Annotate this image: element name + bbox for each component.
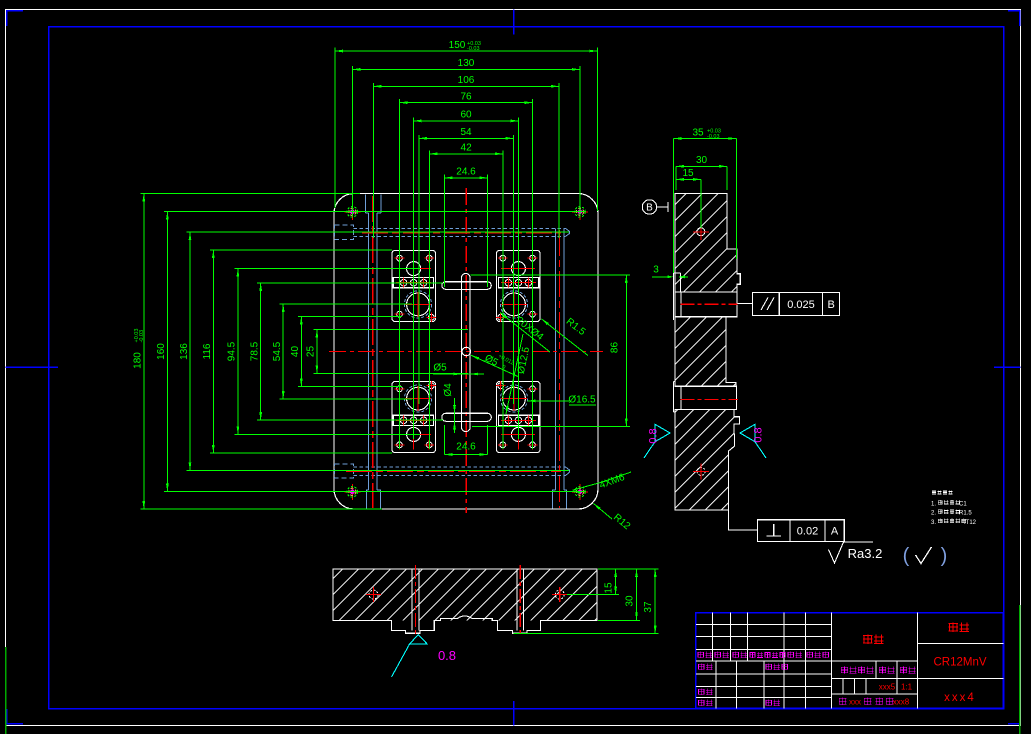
svg-text:25: 25 (306, 346, 317, 358)
dimension 37 bottom section (514, 569, 659, 634)
svg-text:60: 60 (460, 110, 472, 121)
svg-text:0.8: 0.8 (438, 648, 456, 663)
svg-text:C1: C1 (959, 501, 967, 507)
main plate outline with R12 corner fillets (334, 194, 598, 510)
section view right: bottom block hatched (675, 409, 740, 510)
svg-text:-0.03: -0.03 (707, 134, 720, 140)
svg-text:2.: 2. (931, 511, 936, 517)
dimension 24.6 horizontal top (445, 167, 488, 287)
green screenshot edge segments (5, 647, 7, 734)
svg-text:94.5: 94.5 (227, 341, 238, 361)
svg-text:-0.03: -0.03 (139, 330, 145, 343)
dimension dia4 slot (443, 383, 456, 433)
runner centerline left vertical (372, 196, 374, 508)
surface finish 0.8 left of section (644, 424, 670, 458)
title block bottom row gongxzhang (839, 698, 910, 707)
title block label jieduanbiaoji zhongliang bili (841, 667, 874, 674)
runner channel horizontal bottom (354, 466, 566, 468)
runner outlet tab bottom right (553, 490, 567, 508)
svg-text:0.02: 0.02 (797, 526, 818, 538)
dimension 86 right (471, 275, 630, 427)
svg-text:40: 40 (290, 346, 301, 358)
section view right: screw band upper (675, 292, 737, 317)
leader R1.5 (542, 316, 589, 355)
dimension 3 section (652, 265, 688, 279)
runner centerline bottom horizontal (346, 471, 561, 473)
svg-text:30: 30 (696, 155, 708, 166)
datum B symbol (642, 200, 668, 214)
corner hole bottom-left 4xM6 (344, 484, 360, 500)
svg-text:78.5: 78.5 (250, 341, 261, 361)
svg-text:24.6: 24.6 (456, 167, 476, 178)
part name xingxin (863, 635, 884, 645)
runner outlet tab bottom left (367, 490, 381, 508)
technical notes text (931, 491, 977, 526)
dimension 30 section (676, 155, 727, 190)
leader 20X dia4 (500, 313, 550, 353)
svg-text:): ) (941, 545, 948, 567)
surface finish 0.8 right of section (740, 424, 766, 458)
svg-text:A: A (831, 526, 839, 538)
central vertical slot (461, 274, 470, 432)
svg-text:30: 30 (625, 595, 636, 607)
svg-text:R1.5: R1.5 (959, 511, 972, 517)
svg-text:Ø4: Ø4 (443, 383, 454, 397)
dimension 78.5 vertical left (250, 283, 444, 420)
insert block top-right (497, 250, 541, 321)
title block labels row: biaoji chushu fenqu etc (698, 652, 830, 659)
dimension 15 bottom section (567, 569, 619, 595)
dimension 136 vertical left (179, 232, 569, 470)
insert block top-left (392, 250, 436, 321)
corner hole bottom-right 4xM6 (572, 484, 588, 500)
svg-text:0.8: 0.8 (753, 427, 765, 442)
section view right: screw band lower (675, 386, 737, 409)
dimension 54.5 vertical left (272, 304, 412, 399)
svg-text:IT12: IT12 (964, 520, 977, 526)
svg-text:xxx4: xxx4 (944, 692, 976, 704)
svg-text:54: 54 (460, 127, 472, 138)
svg-text:B: B (828, 299, 835, 311)
svg-text:42: 42 (461, 143, 473, 154)
runner centerline top horizontal (362, 232, 561, 234)
svg-text:0.8: 0.8 (648, 428, 660, 443)
svg-text:180: 180 (133, 352, 144, 369)
title block grid (696, 613, 1004, 709)
dimension 40 vertical left (290, 317, 402, 387)
svg-text:xxx5: xxx5 (879, 683, 896, 692)
svg-text:54.5: 54.5 (272, 341, 283, 361)
leader R12 (594, 504, 633, 533)
title block label sheji / biaozhunhua (698, 664, 713, 671)
section hole upper (697, 228, 705, 236)
dimension 15 section (676, 168, 701, 228)
svg-text:160: 160 (156, 343, 167, 360)
svg-text:1:1: 1:1 (901, 683, 913, 692)
svg-text:xxx8: xxx8 (893, 698, 910, 707)
section view right: middle block hatched (675, 317, 736, 387)
centerline vertical main (465, 188, 467, 513)
svg-text:86: 86 (610, 342, 621, 354)
svg-text:116: 116 (202, 343, 213, 359)
section view right: top block hatched (675, 194, 740, 292)
svg-text:-0.03: -0.03 (467, 46, 480, 52)
svg-text:24.6: 24.6 (456, 442, 476, 453)
runner tab left lower (335, 464, 354, 478)
svg-text:CR12MnV: CR12MnV (933, 657, 986, 669)
leader dia12.5 (506, 334, 532, 414)
dimension 94.5 vertical left (227, 269, 420, 435)
insert block bottom-left (392, 382, 436, 453)
svg-text:136: 136 (179, 343, 190, 360)
svg-text:106: 106 (458, 75, 475, 86)
svg-text:130: 130 (458, 58, 475, 69)
surface finish 0.8 bottom section (392, 635, 457, 677)
bottom section slot seams (411, 569, 413, 631)
svg-text:0.025: 0.025 (787, 299, 815, 311)
bottom section red centerlines (414, 565, 416, 637)
dimension 54 horizontal top (419, 127, 514, 404)
dimension 30 bottom section (598, 569, 640, 620)
svg-text:15: 15 (682, 168, 694, 179)
corner hole top-right 4xM6 (572, 204, 588, 220)
dimension 24.6 bottom (444, 425, 487, 456)
dimension 150 horizontal top (335, 40, 598, 211)
svg-text:Ra3.2: Ra3.2 (848, 546, 883, 561)
horizontal slot bottom (442, 413, 492, 421)
svg-text:76: 76 (460, 91, 472, 102)
bracketed check symbol (903, 545, 948, 567)
dimension 130 horizontal top (352, 58, 580, 216)
surface finish Ra3.2 general (829, 542, 883, 563)
svg-text:Ø5: Ø5 (433, 363, 447, 374)
svg-text:37: 37 (643, 601, 654, 613)
dimension 60 horizontal top (414, 110, 519, 439)
svg-text:Ø16.5: Ø16.5 (568, 395, 596, 406)
parallelism tolerance frame 0.025 B (738, 293, 840, 316)
title block outer border (696, 613, 1004, 709)
perpendicularity tolerance frame 0.02 A (729, 510, 845, 542)
dimension 180 vertical left (133, 194, 382, 510)
runner tab left upper (335, 225, 354, 240)
runner centerline right vertical (559, 230, 561, 508)
leader dia5 +0.012 center hole (471, 353, 518, 377)
svg-text:3: 3 (653, 265, 659, 276)
runner channel vertical right (555, 228, 557, 490)
svg-text:15: 15 (604, 582, 615, 594)
dimension 116 vertical left (202, 250, 392, 453)
centerline horizontal main (329, 351, 603, 353)
svg-text:(: ( (903, 545, 910, 567)
insert block bottom-right (497, 382, 541, 453)
dimension dia5 slot (433, 363, 484, 376)
runner channel horizontal top (354, 227, 566, 229)
section hole lower (697, 467, 705, 475)
dimension 35 +-0.03 (674, 127, 737, 273)
svg-text:xxx: xxx (849, 698, 861, 707)
svg-text:1.: 1. (931, 501, 936, 507)
title block label gongyi / pizhun (698, 700, 713, 707)
bottom section hole marks (369, 590, 378, 599)
dimension 25 vertical left (306, 330, 468, 374)
svg-text:35: 35 (692, 127, 704, 138)
dimension 76 horizontal top (400, 91, 533, 449)
runner inlet tab top (365, 195, 381, 214)
dimension 106 horizontal top (373, 75, 559, 238)
runner channel vertical left (367, 213, 369, 490)
leader dia16.5 (528, 395, 597, 406)
school name xueyuan (949, 623, 970, 633)
corner hole top-left 4xM6 (344, 204, 360, 220)
leader 4XM6 (573, 472, 632, 494)
svg-text:150: 150 (449, 40, 466, 51)
svg-text:3.: 3. (931, 520, 936, 526)
bottom section outline hatched (333, 569, 597, 633)
dimension 42 horizontal top (429, 143, 503, 449)
dimension 160 vertical left (156, 212, 586, 492)
horizontal slot top (442, 282, 492, 290)
section left edge boss tabs (674, 273, 681, 320)
svg-text:B: B (646, 203, 653, 214)
center hole (462, 347, 471, 356)
title block label shenhe (698, 689, 713, 696)
